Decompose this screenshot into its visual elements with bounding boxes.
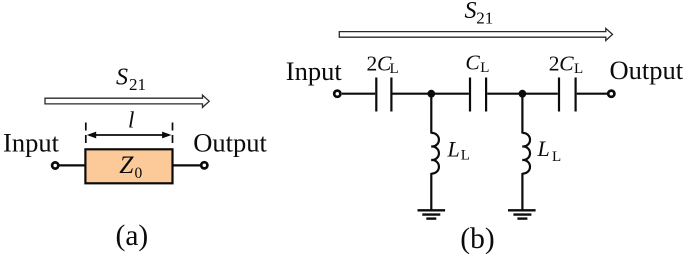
svg-text:L: L bbox=[461, 148, 470, 164]
svg-text:S: S bbox=[116, 65, 128, 91]
label 2CL (first) bbox=[367, 51, 399, 77]
label LL (first) bbox=[447, 136, 470, 163]
label Z0 bbox=[119, 150, 142, 182]
svg-text:L: L bbox=[537, 136, 550, 161]
dashed line right bbox=[172, 123, 174, 148]
svg-text:C: C bbox=[465, 50, 480, 74]
wire box to output bbox=[173, 164, 201, 166]
label S21 (b) bbox=[465, 0, 494, 27]
wire inductor to ground (first) bbox=[430, 173, 432, 210]
svg-text:L: L bbox=[447, 136, 460, 161]
svg-text:L: L bbox=[552, 149, 561, 165]
capacitor 2CL left plate bbox=[375, 78, 377, 112]
input terminal circle (a) bbox=[52, 162, 58, 168]
label LL (second) bbox=[537, 136, 562, 165]
node B junction dot bbox=[519, 90, 527, 98]
label CL bbox=[465, 50, 489, 76]
capacitor CL left plate bbox=[469, 78, 471, 112]
wire inductor to ground (second) bbox=[521, 173, 523, 210]
S21 hollow arrow (b) bbox=[339, 28, 612, 40]
svg-text:(a): (a) bbox=[116, 220, 149, 252]
wire input to C1 bbox=[342, 93, 375, 95]
wire node A down to inductor bbox=[430, 94, 432, 134]
wire input to box bbox=[58, 164, 85, 166]
output terminal circle (a) bbox=[201, 162, 207, 168]
svg-text:C: C bbox=[559, 52, 574, 76]
capacitor 2CL right plate bbox=[390, 78, 392, 112]
svg-text:L: L bbox=[574, 61, 583, 77]
length dimension arrow l bbox=[87, 132, 172, 139]
capacitor 2CL (second) right plate bbox=[574, 78, 576, 112]
svg-text:2: 2 bbox=[367, 51, 378, 75]
svg-text:L: L bbox=[390, 61, 399, 77]
label S21 (a) bbox=[116, 65, 146, 94]
inductor LL (first) bbox=[431, 133, 439, 174]
output terminal circle (b) bbox=[608, 91, 614, 97]
wire C3 to output bbox=[577, 93, 608, 95]
svg-text:S: S bbox=[465, 0, 477, 24]
input terminal circle (b) bbox=[334, 91, 340, 97]
svg-text:Output: Output bbox=[610, 55, 684, 85]
wire C1 to C2 through node A bbox=[393, 93, 469, 95]
capacitor CL right plate bbox=[485, 78, 487, 112]
S21 hollow arrow (a) bbox=[45, 95, 209, 107]
label 2CL (second) bbox=[549, 52, 583, 78]
svg-text:(b): (b) bbox=[460, 223, 494, 254]
wire C2 to C3 through node B bbox=[487, 93, 558, 95]
ground (second) bbox=[508, 210, 536, 218]
svg-text:Input: Input bbox=[3, 128, 60, 158]
svg-text:Output: Output bbox=[193, 128, 267, 158]
svg-text:0: 0 bbox=[135, 165, 143, 182]
svg-text:2: 2 bbox=[549, 52, 560, 76]
capacitor 2CL (second) left plate bbox=[558, 78, 560, 112]
svg-text:Z: Z bbox=[119, 150, 134, 179]
node A junction dot bbox=[427, 90, 435, 98]
svg-text:21: 21 bbox=[129, 75, 146, 94]
wire node B down to inductor bbox=[521, 94, 523, 134]
svg-text:Input: Input bbox=[286, 56, 343, 86]
inductor LL (second) bbox=[522, 133, 530, 174]
svg-text:L: L bbox=[480, 60, 489, 76]
ground (first) bbox=[418, 210, 446, 218]
svg-text:21: 21 bbox=[476, 8, 493, 27]
transmission line box Z0 bbox=[85, 149, 172, 183]
svg-text:l: l bbox=[128, 108, 134, 133]
dashed line left bbox=[85, 123, 87, 148]
